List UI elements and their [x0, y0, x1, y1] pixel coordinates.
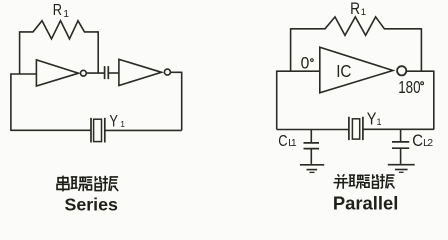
svg-text:1: 1 [361, 7, 366, 18]
諧 [364, 174, 378, 188]
wire [105, 129, 182, 131]
label CL1 [278, 133, 287, 150]
wire [277, 70, 320, 72]
svg-text:1: 1 [291, 138, 297, 149]
capacitor C1 [105, 66, 109, 79]
capacitor CL1 [310, 130, 312, 143]
svg-text:C: C [278, 133, 287, 150]
svg-text:C: C [412, 132, 423, 150]
wire [86, 72, 104, 74]
label Y1 (right) [367, 110, 377, 128]
label IC [336, 62, 351, 81]
label CL2 [412, 132, 423, 150]
wire [11, 73, 37, 75]
諧 [87, 176, 102, 190]
capacitor CL2 [400, 130, 402, 142]
svg-text:2: 2 [427, 137, 433, 149]
聯 [349, 174, 365, 188]
wire [407, 70, 434, 72]
wire [171, 71, 182, 73]
label 180deg [398, 78, 421, 97]
wire [108, 72, 119, 74]
svg-text:Y: Y [367, 110, 377, 128]
label 串聯諧振 [57, 176, 118, 192]
svg-text:1: 1 [120, 119, 125, 129]
wire [11, 129, 91, 131]
svg-text:IC: IC [336, 62, 351, 81]
label 并聯諧振 [333, 174, 394, 189]
label Y1 [109, 113, 118, 131]
op-amp IC [320, 47, 393, 93]
wire [276, 71, 278, 130]
wire [290, 28, 292, 71]
inverter U2 [119, 59, 162, 85]
串 [57, 176, 69, 192]
svg-text:Series: Series [65, 195, 118, 212]
svg-text:Y: Y [109, 113, 118, 131]
振 [103, 176, 119, 191]
inverter U1 [36, 60, 78, 86]
wire [10, 73, 12, 131]
聯 [71, 176, 87, 191]
label R1 (right) [350, 0, 360, 18]
wire [181, 72, 183, 131]
label R1 [53, 2, 62, 20]
resistor R1 (right) [291, 17, 422, 35]
label 0deg [301, 54, 310, 73]
svg-text:180: 180 [398, 78, 421, 97]
crystal Y1 [91, 118, 105, 143]
svg-text:1: 1 [377, 117, 382, 127]
svg-text:Parallel: Parallel [333, 193, 398, 212]
svg-text:R: R [53, 2, 62, 20]
wire [97, 31, 99, 73]
ground [300, 164, 324, 166]
svg-text:0: 0 [301, 54, 310, 73]
振 [380, 174, 395, 189]
ground [388, 164, 415, 166]
svg-text:1: 1 [63, 9, 69, 20]
crystal Y1 (right) [349, 117, 363, 140]
wire [363, 128, 434, 130]
svg-text:R: R [350, 0, 360, 18]
resistor R1 [20, 21, 99, 39]
wire [19, 31, 21, 74]
wire [420, 28, 422, 71]
wire [433, 71, 435, 130]
wire [277, 129, 349, 131]
并 [333, 174, 348, 189]
